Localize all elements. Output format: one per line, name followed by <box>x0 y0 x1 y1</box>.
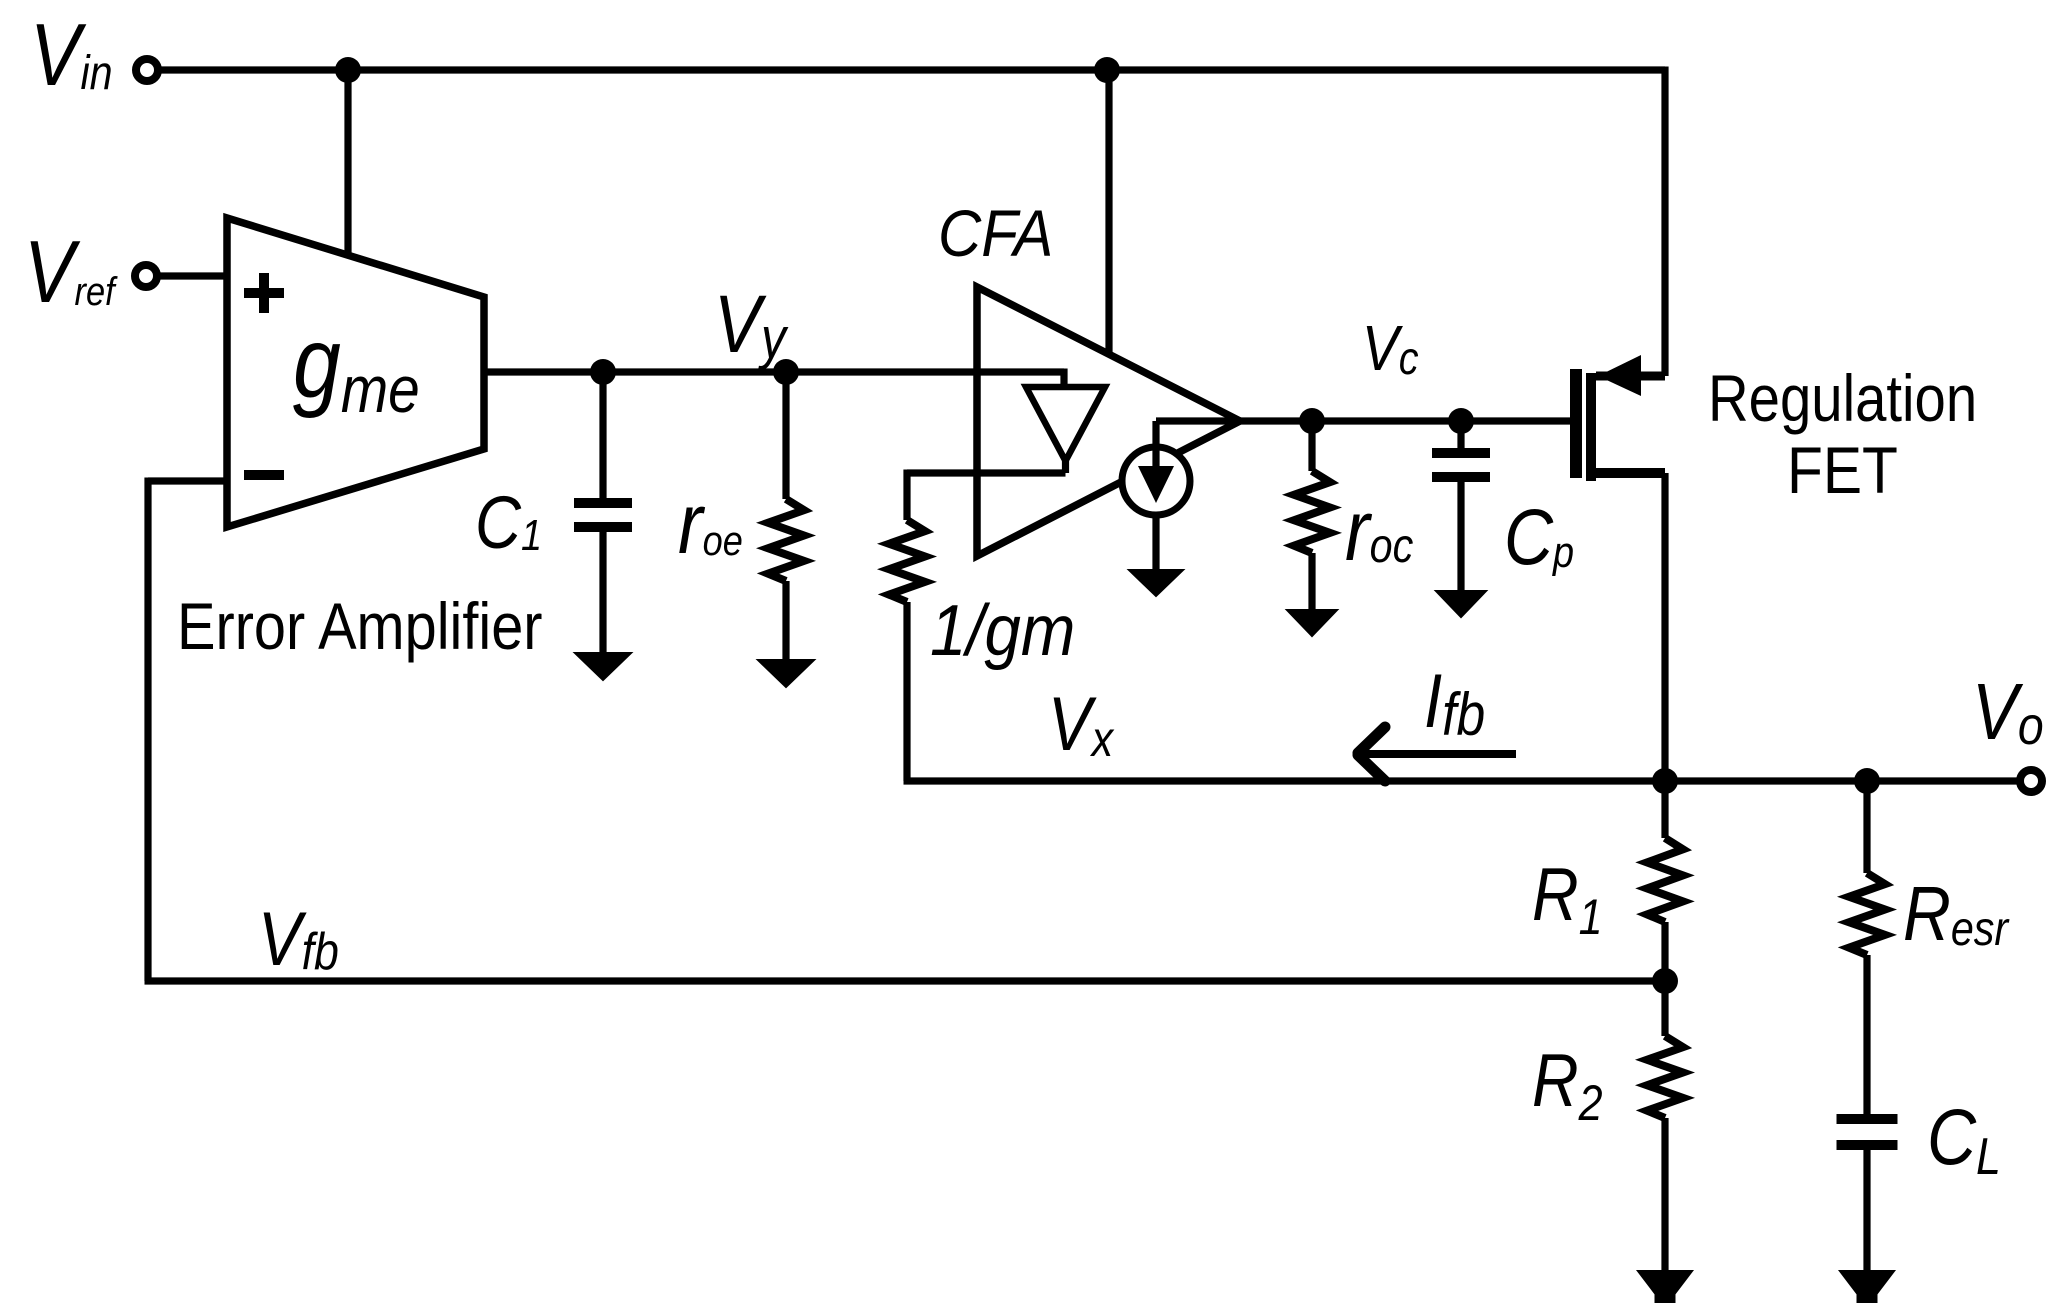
resistor roc <box>1308 421 1315 471</box>
wire error amp output Vy <box>484 368 1064 375</box>
svg-text:CFA: CFA <box>938 197 1053 271</box>
wire Vin to error amplifier top <box>344 70 351 258</box>
FET source arrow <box>1598 355 1641 396</box>
capacitor Cp <box>1457 421 1464 450</box>
resistor R1 <box>1661 781 1668 838</box>
wire feedback left vertical <box>144 478 151 982</box>
resistor 1/gm value label <box>930 591 1075 671</box>
resistor R2 <box>1661 981 1668 1036</box>
transistor regulation FET gate bar <box>1570 369 1582 478</box>
node Vx label <box>1048 682 1115 767</box>
node Vref terminal <box>135 265 157 287</box>
ground below C1 <box>575 653 631 680</box>
error amp minus input marking <box>244 470 284 480</box>
junction Vo at Resr <box>1854 768 1880 794</box>
error amp plus input marking <box>244 288 284 298</box>
ground below CL <box>1840 1271 1894 1302</box>
transistor regulation FET channel bar <box>1586 373 1596 481</box>
wire FET drain <box>1586 468 1665 478</box>
wire Vref to error amp <box>157 272 227 279</box>
current Ifb arrow <box>1364 750 1516 758</box>
error amp gain label gme <box>293 307 420 427</box>
op-amp CFA current feedback amplifier <box>977 287 1240 556</box>
CFA label <box>938 197 1053 271</box>
wire Vin to CFA supply <box>1105 70 1112 356</box>
node Vfb label <box>258 897 339 982</box>
wire FET source <box>1596 372 1665 381</box>
node Vref label <box>24 224 118 322</box>
node Vin terminal <box>136 59 158 81</box>
ground below Cp <box>1436 591 1486 617</box>
capacitor CL <box>1837 1114 1898 1124</box>
junction Vc at Cp <box>1448 408 1474 434</box>
regulation FET caption line1 <box>1708 362 1977 436</box>
wire Vfb horizontal <box>145 977 1666 984</box>
regulation FET caption line2 <box>1787 434 1898 508</box>
wire error amp minus input <box>148 477 227 484</box>
op-amp error amplifier gme <box>227 218 484 527</box>
node Vin label <box>30 7 113 105</box>
wire top rail right corner down to FET source <box>1661 67 1668 377</box>
wire CFA output Vc to FET gate <box>1240 417 1570 424</box>
resistor Resr <box>1863 781 1870 873</box>
capacitor C1 value label <box>475 482 542 565</box>
error amplifier caption <box>177 590 543 664</box>
ground below roe <box>758 660 814 687</box>
ground below current source <box>1129 570 1183 596</box>
svg-text:FET: FET <box>1787 434 1898 508</box>
resistor R1 value label <box>1532 852 1602 944</box>
wire current source to ground <box>1152 515 1159 572</box>
wire Vin top rail <box>158 66 1665 73</box>
node Vo label <box>1972 666 2044 756</box>
resistor Resr value label <box>1903 871 2010 957</box>
resistor 1/gm <box>903 470 910 521</box>
ground below R2 <box>1638 1271 1692 1302</box>
node Vc label <box>1362 312 1418 385</box>
junction Vy at roe <box>773 359 799 385</box>
resistor roc value label <box>1345 482 1413 579</box>
svg-text:Error Amplifier: Error Amplifier <box>177 590 543 664</box>
junction Vfb tap between R1 and R2 <box>1652 968 1678 994</box>
junction Vo at FET drain / R1 <box>1652 768 1678 794</box>
junction top rail to error amp <box>335 57 361 83</box>
junction Vy at C1 <box>590 359 616 385</box>
wire Vx feedback line <box>904 777 2021 784</box>
svg-text:Regulation: Regulation <box>1708 362 1977 436</box>
node Vy label <box>714 279 789 371</box>
ground below roc <box>1287 610 1337 636</box>
wire FET drain down to output <box>1661 473 1668 781</box>
junction top rail to CFA supply <box>1094 57 1120 83</box>
capacitor Cp value label <box>1504 492 1574 581</box>
wire CFA noninverting input jog <box>1060 369 1067 388</box>
resistor roe value label <box>678 475 743 572</box>
node Vo terminal <box>2020 770 2042 792</box>
wire buffer output to 1/gm <box>1062 461 1069 473</box>
resistor R2 value label <box>1532 1038 1603 1130</box>
CFA internal buffer <box>1026 387 1105 461</box>
junction Vc at roc <box>1299 408 1325 434</box>
wire current source to CFA output <box>1152 421 1159 470</box>
resistor roe <box>782 372 789 499</box>
svg-text:1/gm: 1/gm <box>930 591 1075 671</box>
capacitor C1 <box>599 372 606 501</box>
capacitor CL value label <box>1927 1092 2001 1186</box>
current source in CFA output <box>1122 447 1190 515</box>
current Ifb label <box>1424 659 1485 747</box>
